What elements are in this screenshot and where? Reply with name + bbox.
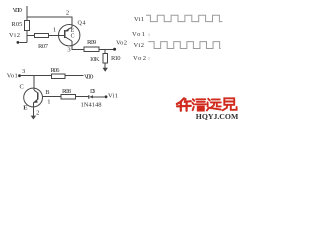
svg-text:Vi2: Vi2 [134, 42, 145, 49]
svg-text:HQYJ.COM: HQYJ.COM [196, 113, 239, 121]
svg-text:1: 1 [53, 27, 56, 34]
svg-text:C: C [71, 34, 75, 40]
svg-text:R08: R08 [62, 88, 71, 95]
svg-text:Vo1: Vo1 [132, 31, 145, 38]
svg-text:1N4148: 1N4148 [81, 101, 102, 108]
svg-text:C: C [20, 84, 24, 91]
svg-text:1: 1 [47, 98, 50, 105]
svg-text:R10: R10 [111, 55, 121, 62]
svg-text:VDD: VDD [13, 7, 23, 14]
svg-text:Vo1: Vo1 [7, 72, 18, 79]
svg-text:3: 3 [67, 46, 70, 53]
svg-text:3: 3 [22, 68, 25, 75]
svg-text:Q4: Q4 [78, 21, 86, 27]
svg-text:10K: 10K [90, 56, 100, 63]
svg-text:Vi1: Vi1 [134, 16, 144, 23]
svg-text:VDD: VDD [84, 73, 94, 80]
svg-text:2: 2 [66, 10, 69, 17]
svg-text:Vo2: Vo2 [133, 55, 146, 62]
svg-text:R09: R09 [87, 39, 96, 46]
svg-text:Vi2: Vi2 [9, 32, 20, 39]
svg-text:Vi1: Vi1 [108, 92, 118, 99]
svg-text:2: 2 [36, 109, 39, 116]
svg-text:Vo2: Vo2 [116, 39, 127, 46]
svg-text:B: B [45, 89, 50, 96]
svg-text:R05: R05 [11, 21, 22, 28]
svg-text:R07: R07 [38, 43, 49, 50]
svg-text:D3: D3 [90, 88, 95, 95]
svg-text:R06: R06 [51, 67, 61, 74]
svg-text:E: E [23, 104, 27, 111]
